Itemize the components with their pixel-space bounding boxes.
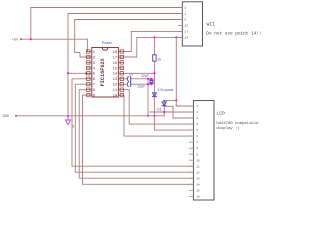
PIC pin numbers left <box>93 51 96 99</box>
connector J2 LCD box <box>193 101 214 200</box>
svg-text:18: 18 <box>113 51 118 55</box>
wire GND rail to LCD pin3 <box>16 115 164 117</box>
wire PIC pin7 to LCD pin12 <box>75 84 193 172</box>
svg-text:PIC16F62X: PIC16F62X <box>100 57 106 86</box>
svg-text:5: 5 <box>184 19 186 22</box>
junction pin5 branch <box>67 72 69 74</box>
wire PIC pin8 to LCD pin13 <box>79 90 193 179</box>
svg-text:14: 14 <box>196 183 200 186</box>
svg-text:10: 10 <box>113 95 118 99</box>
svg-text:LCD: LCD <box>216 111 225 117</box>
wire +5v down to PIC pin 1 <box>86 39 88 51</box>
LCD pin numbers <box>196 105 200 198</box>
junction 3.3v to LCD rail <box>175 36 177 38</box>
svg-text:14: 14 <box>113 73 118 77</box>
connector J1 WII box <box>182 2 202 46</box>
svg-text:16: 16 <box>184 25 188 28</box>
junction diode to pin2 wire <box>163 111 165 113</box>
svg-text:7: 7 <box>93 84 95 88</box>
junction pin14 rail <box>153 72 155 74</box>
IC U2 PIC16F62X body <box>92 48 119 98</box>
node GND endpoint dot <box>15 115 17 117</box>
junction LCD pin1 jog <box>175 99 177 101</box>
svg-text:14: 14 <box>184 37 188 40</box>
svg-text:GND: GND <box>3 115 9 119</box>
junction crystal row A <box>150 78 152 80</box>
wire +5v rail horizontal <box>21 38 87 40</box>
zener diode D2 on rail <box>152 93 156 97</box>
svg-text:1: 1 <box>184 13 186 16</box>
wire osc row A <box>124 78 128 80</box>
junction 3.3v rail top <box>153 36 155 38</box>
svg-text:WII: WII <box>207 21 216 27</box>
wire branch to PIC pin 5 <box>68 72 91 74</box>
junction osc gnd rail <box>147 115 149 117</box>
svg-text:10: 10 <box>196 159 200 162</box>
wire 3.3v to LCD pin1 vertical <box>175 37 177 100</box>
svg-text:17: 17 <box>184 31 188 34</box>
wire 3.3v vertical rail down to LCD pin5 <box>154 37 193 130</box>
svg-text:D1: D1 <box>157 107 161 111</box>
wire WII row 2 to PIC pin5 and GND rail <box>68 14 182 116</box>
svg-text:16: 16 <box>113 62 118 66</box>
junction +5v <box>30 38 32 40</box>
PIC left pins <box>87 50 92 97</box>
wire PIC pin17 to WII row 6 (3.3v net) <box>124 37 183 57</box>
svg-text:16: 16 <box>196 195 200 198</box>
wire elbow diode to gnd rail <box>164 106 193 118</box>
svg-text:22pF: 22pF <box>138 85 146 89</box>
wire jog to diode D1 <box>164 100 176 115</box>
resistor R1 <box>153 55 156 61</box>
wire PIC pin11 to LCD pin4 <box>124 90 194 124</box>
svg-text:Do not use point 14!!: Do not use point 14!! <box>206 32 261 37</box>
crystal X1 <box>150 80 154 83</box>
svg-text:1k: 1k <box>157 57 161 61</box>
WII pin stubs <box>178 8 182 38</box>
svg-text:display :): display :) <box>216 126 239 131</box>
wire osc row B <box>124 83 128 85</box>
capacitor C1 on row A <box>127 76 130 81</box>
junction rail zener gnd <box>153 115 155 117</box>
svg-text:22pF: 22pF <box>141 74 149 78</box>
wire PIC pin6 to LCD pin11 <box>72 79 193 166</box>
svg-text:hd44780 compatible: hd44780 compatible <box>216 121 259 126</box>
svg-text:11: 11 <box>113 89 118 93</box>
svg-text:U1: U1 <box>129 72 133 76</box>
wire PIC pin10 to LCD pin6 <box>124 95 194 136</box>
svg-text:12: 12 <box>196 171 200 174</box>
PIC pin numbers right <box>113 51 118 99</box>
WII pin labels <box>184 7 188 40</box>
junction GND rail left <box>67 115 69 117</box>
wire +5v up to WII row 1 <box>31 8 183 40</box>
node +5v endpoint dot <box>20 38 22 40</box>
svg-text:2: 2 <box>184 7 186 10</box>
junction osc gnd B <box>147 83 149 85</box>
wire PIC pin9 to LCD pin14 <box>83 95 194 184</box>
wire LCD pin2 <box>150 111 193 113</box>
wire WII row 3 stair to PIC pin 2 <box>75 20 183 58</box>
LCD pin stubs <box>189 106 193 196</box>
junction near pin5 <box>85 72 87 74</box>
junction osc gnd A <box>147 78 149 80</box>
svg-text:17: 17 <box>113 56 118 60</box>
PIC right pins <box>118 50 123 97</box>
svg-text:Power: Power <box>102 41 113 45</box>
ground symbol 0 <box>65 116 70 125</box>
svg-text:+5v: +5v <box>12 39 20 43</box>
capacitor C2 on row B <box>127 82 130 87</box>
wire osc gnd vertical <box>147 79 149 116</box>
svg-text:3.3v power: 3.3v power <box>158 88 175 92</box>
svg-text:11: 11 <box>196 165 200 168</box>
svg-text:12: 12 <box>113 84 118 88</box>
svg-text:13: 13 <box>196 177 200 180</box>
diode D1 <box>162 100 166 107</box>
svg-text:15: 15 <box>196 189 200 192</box>
wire V8 down to LCD pin1 <box>176 100 193 106</box>
svg-text:13: 13 <box>113 78 118 82</box>
wire PIC pin14 to rail <box>124 72 155 74</box>
svg-text:15: 15 <box>113 67 118 71</box>
wire PIC pin18 to WII row 5 <box>124 31 183 51</box>
junction crystal row B <box>150 83 152 85</box>
